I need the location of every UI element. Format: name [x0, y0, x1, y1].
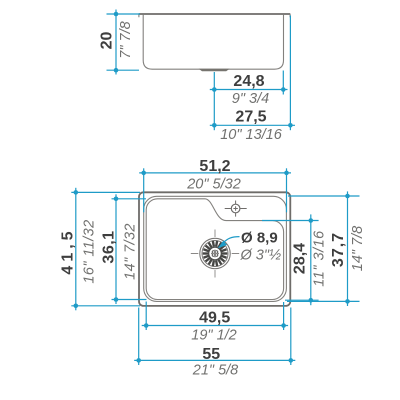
- dimension 24,8 line: [210, 71, 288, 131]
- svg-text:14" 7/8: 14" 7/8: [350, 226, 366, 271]
- dimension 36,1 (left): [112, 194, 147, 304]
- svg-text:14" 7/32: 14" 7/32: [123, 223, 139, 280]
- svg-text:27,5: 27,5: [235, 109, 266, 126]
- svg-text:55: 55: [202, 346, 220, 363]
- side view drain bump: [199, 69, 230, 72]
- plan view bowl outer line: [144, 196, 287, 301]
- drain leader arrow: [218, 237, 240, 249]
- svg-text:Ø 3"½: Ø 3"½: [240, 247, 282, 263]
- svg-text:16" 11/32: 16" 11/32: [82, 219, 98, 283]
- drain assembly: [191, 230, 239, 278]
- dimension 55 (bottom outer): [134, 308, 295, 366]
- dimension 37,7 (right outer): [287, 191, 360, 306]
- plan view outer rim rectangle: [139, 192, 290, 306]
- dimension 27,5 line: [210, 16, 295, 131]
- svg-text:36,1: 36,1: [101, 230, 118, 263]
- svg-text:20" 5/32: 20" 5/32: [186, 176, 241, 192]
- svg-text:Ø 8,9: Ø 8,9: [241, 229, 278, 246]
- svg-text:28,4: 28,4: [292, 243, 309, 274]
- dimension 20 vertical line: [107, 10, 141, 75]
- dimension 51,2 (top): [139, 168, 291, 212]
- svg-text:10" 13/16: 10" 13/16: [220, 127, 283, 143]
- svg-text:20: 20: [99, 32, 116, 50]
- dimension 49,5 (bottom inner): [142, 302, 288, 331]
- svg-text:7" 7/8: 7" 7/8: [118, 21, 134, 58]
- drain crosshair: [191, 253, 239, 255]
- svg-text:49,5: 49,5: [199, 309, 230, 326]
- drain center rosette: [212, 251, 218, 257]
- svg-text:24,8: 24,8: [233, 73, 264, 90]
- plan view bowl inner line with faucet ledge cutout: [146, 199, 283, 300]
- svg-text:37,7: 37,7: [330, 232, 347, 267]
- side view bowl outline: [143, 15, 283, 69]
- svg-text:21" 5/8: 21" 5/8: [192, 362, 238, 378]
- svg-text:19" 1/2: 19" 1/2: [191, 328, 236, 344]
- svg-text:11" 3/16: 11" 3/16: [312, 230, 328, 287]
- dimension 28,4 (right inner): [262, 214, 319, 305]
- svg-text:9" 3/4: 9" 3/4: [232, 91, 269, 107]
- svg-text:41,5: 41,5: [60, 227, 77, 274]
- svg-text:51,2: 51,2: [199, 158, 230, 175]
- dimension 41,5 (far left): [71, 188, 140, 310]
- side view rim top line: [139, 14, 291, 17]
- faucet hole: [225, 201, 247, 217]
